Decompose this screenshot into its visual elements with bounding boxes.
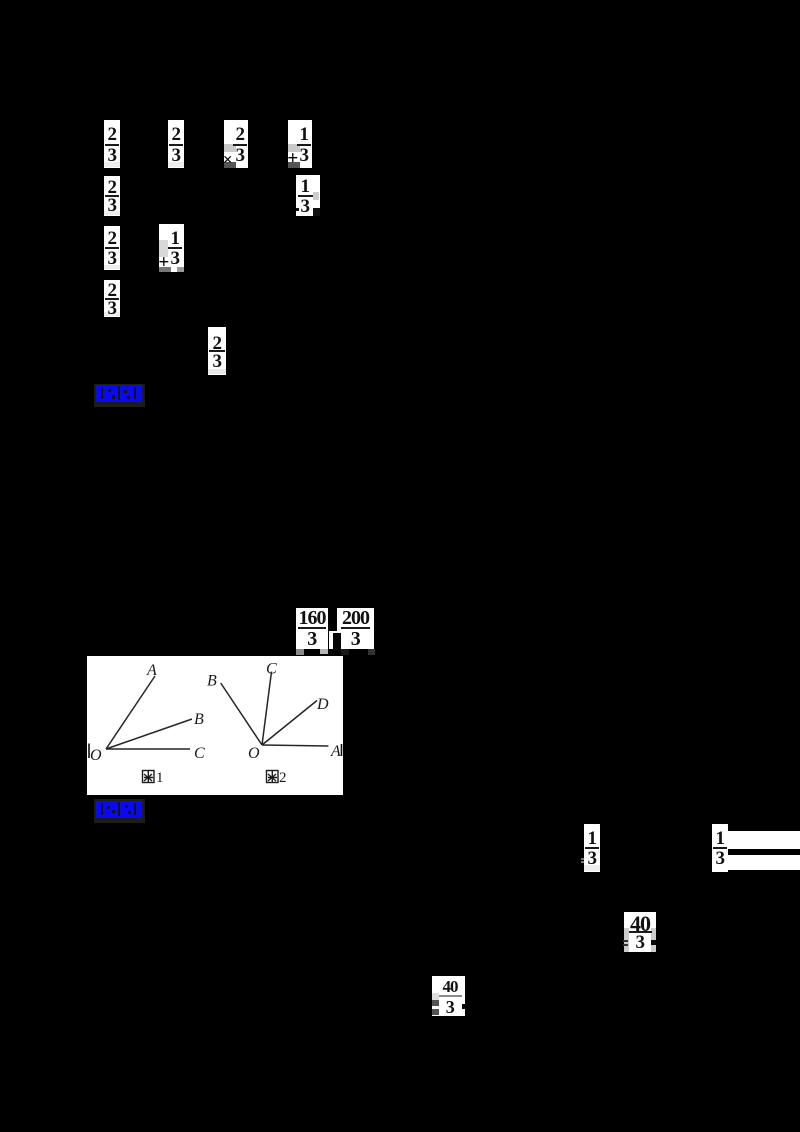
svg-text:O: O [248, 745, 260, 762]
svg-text:C: C [194, 745, 205, 762]
svg-text:A: A [146, 662, 157, 679]
svg-text:D: D [316, 696, 329, 713]
svg-text:2: 2 [279, 770, 287, 786]
svg-text:O: O [90, 747, 102, 764]
svg-text:B: B [194, 711, 204, 728]
svg-text:A: A [330, 743, 341, 760]
svg-text:C: C [266, 660, 277, 677]
svg-text:B: B [207, 673, 217, 690]
svg-text:1: 1 [156, 770, 164, 786]
